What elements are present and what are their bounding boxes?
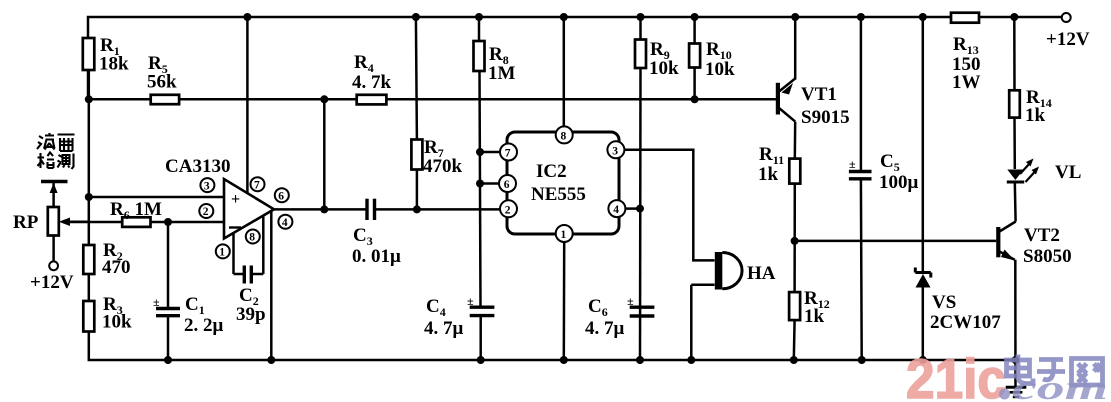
svg-text:±: ± xyxy=(849,157,856,171)
node pin8 rail xyxy=(560,13,568,21)
wire pin6 stub xyxy=(480,182,499,185)
svg-text:470k: 470k xyxy=(423,156,463,177)
svg-text:3: 3 xyxy=(204,180,210,192)
svg-text:1k: 1k xyxy=(804,306,825,327)
svg-text:1M: 1M xyxy=(488,63,516,84)
wire inverting input xyxy=(70,221,224,224)
node C5 rail xyxy=(857,13,865,21)
wire left sense branch xyxy=(88,99,91,245)
svg-text:1k: 1k xyxy=(758,164,779,185)
resistor R10 xyxy=(689,17,735,99)
resistor R2 xyxy=(83,240,130,301)
svg-text:C1: C1 xyxy=(185,294,205,317)
terminal +12V left xyxy=(30,261,74,293)
wire RP to +12V terminal xyxy=(52,236,55,262)
svg-text:6: 6 xyxy=(278,190,284,202)
pin 4 circle 555 xyxy=(608,200,625,217)
capacitor C4 xyxy=(424,294,494,360)
pin 2 circle xyxy=(199,204,213,218)
speaker HA xyxy=(691,252,775,360)
node junction R1-rail xyxy=(85,95,93,103)
wire VT2 base line xyxy=(795,240,997,243)
wire op-amp output xyxy=(274,208,367,211)
svg-text:1: 1 xyxy=(561,229,567,241)
wire pin7 stub xyxy=(480,151,500,154)
resistor R7 xyxy=(411,17,462,209)
watermark com script xyxy=(999,370,1108,402)
svg-text:18k: 18k xyxy=(99,54,129,75)
resistor R3 xyxy=(83,294,132,333)
svg-text:0. 01μ: 0. 01μ xyxy=(352,246,401,267)
node R14 rail xyxy=(1010,13,1018,21)
resistor R5 xyxy=(147,53,179,104)
terminal +12V right xyxy=(1046,13,1090,50)
zener diode VS 2CW107 xyxy=(915,17,1001,360)
svg-text:56k: 56k xyxy=(147,72,177,93)
pin 7 circle 555 xyxy=(500,144,517,161)
svg-text:2CW107: 2CW107 xyxy=(930,312,1001,333)
svg-text:VS: VS xyxy=(932,292,956,313)
svg-text:com: com xyxy=(1012,370,1108,402)
capacitor C2 xyxy=(234,216,266,326)
node R7 rail xyxy=(412,13,420,21)
IC U2 NE555 box xyxy=(507,132,619,234)
wire pin8 to rail xyxy=(563,17,566,126)
pin 8 circle xyxy=(246,230,260,244)
svg-text:3: 3 xyxy=(612,145,618,157)
node VT2 emitter ground xyxy=(1012,356,1020,364)
svg-text:C3: C3 xyxy=(353,225,373,248)
node pin7 rail xyxy=(243,13,251,21)
pin 2 circle 555 xyxy=(500,200,517,217)
svg-text:±: ± xyxy=(627,294,634,308)
node pin7 link xyxy=(476,148,484,156)
svg-text:2. 2μ: 2. 2μ xyxy=(184,315,224,336)
svg-text:S9015: S9015 xyxy=(801,107,850,128)
svg-text:±: ± xyxy=(467,294,474,308)
svg-text:1: 1 xyxy=(219,247,225,259)
pin 1 circle xyxy=(216,244,230,258)
svg-text:VL: VL xyxy=(1055,162,1081,183)
resistor R12 xyxy=(789,288,830,360)
svg-text:4. 7k: 4. 7k xyxy=(352,72,392,93)
node VS rail xyxy=(919,13,927,21)
watermark CJK dianziwang xyxy=(1007,355,1103,386)
capacitor C6 xyxy=(585,294,654,339)
svg-text:7: 7 xyxy=(254,179,260,191)
wire top supply rail xyxy=(88,17,1062,99)
node R10 rail xyxy=(691,13,699,21)
svg-text:8: 8 xyxy=(561,130,567,142)
svg-text:C5: C5 xyxy=(880,151,900,174)
wire pin1 to ground xyxy=(563,242,566,360)
svg-text:1W: 1W xyxy=(952,72,981,93)
node R8 rail xyxy=(475,13,483,21)
svg-text:IC2: IC2 xyxy=(536,161,567,182)
svg-text:39p: 39p xyxy=(236,304,266,325)
svg-text:1k: 1k xyxy=(1025,105,1046,126)
transistor Q2 VT2 S8050 xyxy=(996,222,1071,388)
svg-text:C4: C4 xyxy=(426,296,446,319)
svg-text:4. 7μ: 4. 7μ xyxy=(585,318,625,339)
svg-text:+12V: +12V xyxy=(1046,29,1090,50)
svg-text:6: 6 xyxy=(504,179,510,191)
svg-text:10k: 10k xyxy=(649,58,679,79)
svg-text:4. 7μ: 4. 7μ xyxy=(424,318,464,339)
resistor R11 xyxy=(758,144,800,292)
svg-text:2: 2 xyxy=(203,206,209,218)
svg-text:S8050: S8050 xyxy=(1023,246,1072,267)
probe electrode bar xyxy=(41,182,68,208)
capacitor C1 xyxy=(153,222,224,360)
potentiometer RP xyxy=(13,207,89,236)
svg-text:VT1: VT1 xyxy=(801,84,837,105)
node mid rail feedback xyxy=(320,95,328,103)
node C1 tap xyxy=(164,218,172,226)
pin 8 circle 555 xyxy=(556,126,573,143)
node VT2 drive tap xyxy=(791,237,799,245)
pin 4 circle xyxy=(278,215,292,229)
svg-text:8: 8 xyxy=(249,232,255,244)
svg-text:R6 1M: R6 1M xyxy=(110,199,162,222)
capacitor C5 xyxy=(849,17,919,360)
label liquid-level probe text xyxy=(37,133,75,169)
pin 6 circle 555 xyxy=(499,175,516,192)
node VT1 emitter rail xyxy=(791,13,799,21)
wire op-amp + input xyxy=(89,196,224,199)
ground symbol xyxy=(1006,387,1027,397)
capacitor C3 xyxy=(352,199,502,267)
svg-text:+: + xyxy=(231,191,240,208)
pin 3 circle xyxy=(200,178,214,192)
pin 3 circle 555 xyxy=(607,141,624,158)
svg-text:RP: RP xyxy=(13,212,39,233)
node R9 rail xyxy=(637,13,645,21)
transistor Q1 VT1 S9015 xyxy=(776,17,850,159)
svg-text:10k: 10k xyxy=(102,312,132,333)
svg-text:4: 4 xyxy=(613,204,619,216)
svg-text:21ic: 21ic xyxy=(906,347,1006,402)
node bottom rail junctions xyxy=(164,356,927,364)
wire op-amp V- pin4 to ground xyxy=(270,210,273,360)
node R7 bottom xyxy=(413,205,421,213)
svg-text:HA: HA xyxy=(747,263,776,284)
svg-text:2: 2 xyxy=(505,204,511,216)
wire bottom ground rail xyxy=(89,332,1016,361)
resistor R14 xyxy=(1009,17,1052,169)
node output to feedback xyxy=(320,205,328,213)
svg-text:4: 4 xyxy=(282,217,288,229)
LED VL xyxy=(1007,159,1082,222)
op-amp U1 CA3130 xyxy=(165,156,274,239)
svg-text:10k: 10k xyxy=(705,59,735,80)
svg-text:7: 7 xyxy=(505,148,511,160)
svg-text:±: ± xyxy=(153,295,160,309)
wire feedback riser xyxy=(323,99,326,209)
watermark 21ic xyxy=(906,347,1006,402)
wire op-amp V+ pin7 from rail xyxy=(246,17,249,193)
pin 6 circle xyxy=(275,188,289,202)
resistor R6 xyxy=(110,199,162,227)
resistor R1 xyxy=(83,35,129,99)
pin 7 circle xyxy=(251,177,265,191)
svg-text:VT2: VT2 xyxy=(1024,225,1060,246)
pin 1 circle 555 xyxy=(556,225,573,242)
svg-text:100μ: 100μ xyxy=(879,172,919,193)
resistor R13 xyxy=(951,13,981,93)
wire pin4 stub xyxy=(625,207,640,210)
svg-text:C6: C6 xyxy=(588,296,608,319)
resistor R9 xyxy=(635,17,679,360)
node noninverting tap xyxy=(85,193,93,201)
node pin6 link xyxy=(476,180,484,188)
svg-text:CA3130: CA3130 xyxy=(165,156,230,177)
svg-text:470: 470 xyxy=(102,257,131,278)
wire middle rail xyxy=(88,98,777,101)
resistor R4 xyxy=(352,52,392,104)
node R10 base line xyxy=(691,95,699,103)
wire pin3 to speaker xyxy=(624,150,714,261)
resistor R8 xyxy=(474,17,516,307)
svg-text:NE555: NE555 xyxy=(531,184,586,205)
svg-text:+12V: +12V xyxy=(30,272,74,293)
node pin4 link xyxy=(636,205,644,213)
